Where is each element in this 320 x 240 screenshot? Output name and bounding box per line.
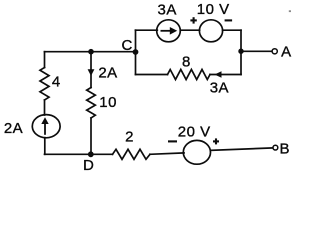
- minus sign of 10 V source: [225, 19, 233, 21]
- wire left branch between resistor 4 and current source: [44, 100, 46, 115]
- svg-text:3A: 3A: [210, 80, 229, 97]
- wire between resistor 2 and 20 V source: [150, 153, 184, 154]
- svg-text:10: 10: [99, 94, 117, 111]
- wire between 3A source and 10 V source: [180, 29, 199, 31]
- current source 3A arrow (right): [161, 27, 178, 35]
- resistor 8: [168, 70, 211, 80]
- plus sign of 20 V source: [213, 140, 219, 142]
- junction dot top of middle branch: [88, 49, 94, 55]
- junction dot at terminal A branch: [238, 49, 243, 54]
- node C junction dot: [133, 49, 139, 55]
- svg-text:D: D: [83, 157, 94, 172]
- plus sign of 10 V source: [190, 19, 196, 21]
- svg-text:3A: 3A: [158, 2, 177, 19]
- minus sign of 20 V source: [168, 140, 177, 142]
- wire middle branch between arrow and resistor 10: [90, 75, 92, 88]
- voltage source 10 V (circle): [199, 20, 222, 42]
- wire left branch upper segment: [44, 52, 46, 68]
- svg-text:2: 2: [125, 128, 134, 145]
- svg-text:A: A: [281, 44, 292, 61]
- arrowhead of 2A branch current arrow: [88, 69, 95, 76]
- wire bottom horizontal (left to resistor 2): [45, 153, 113, 155]
- resistor 10: [87, 88, 96, 119]
- svg-text:8: 8: [182, 54, 191, 71]
- wire terminal A lead: [241, 50, 272, 52]
- svg-text:20 V: 20 V: [178, 124, 211, 141]
- wire top loop left vertical: [135, 30, 137, 74]
- svg-text:4: 4: [52, 74, 61, 91]
- terminal B circle: [273, 145, 278, 150]
- terminal A circle: [272, 49, 277, 54]
- svg-text:10 V: 10 V: [197, 1, 230, 18]
- node D junction dot: [88, 151, 94, 157]
- svg-text:2A: 2A: [4, 120, 23, 137]
- current source 3A (circle): [157, 20, 181, 42]
- wire top-left horizontal (node C to left branch): [45, 51, 136, 53]
- wire top loop bottom segment right: [210, 74, 241, 76]
- wire top loop top segment left: [136, 29, 158, 31]
- svg-text:C: C: [122, 37, 133, 54]
- resistor 4: [40, 68, 49, 101]
- svg-text:B: B: [280, 140, 291, 157]
- wire top loop right vertical: [240, 30, 242, 74]
- arrowhead of 3A arrow on resistor 8 wire: [215, 71, 222, 78]
- voltage source 20 V (circle): [183, 140, 210, 164]
- wire terminal B lead: [210, 148, 272, 151]
- wire top loop bottom segment left: [136, 74, 168, 76]
- resistor 2: [113, 149, 151, 159]
- current source 2A (circle): [32, 115, 60, 138]
- current source 2A arrow (up): [41, 117, 48, 135]
- wire left branch lower segment: [44, 138, 46, 155]
- wire middle branch below resistor 10 to node D: [90, 118, 92, 154]
- wire middle branch shaft above arrow: [90, 52, 92, 71]
- speck artifact top right: [289, 10, 291, 12]
- wire top loop top segment right: [223, 29, 241, 31]
- svg-text:2A: 2A: [98, 65, 117, 82]
